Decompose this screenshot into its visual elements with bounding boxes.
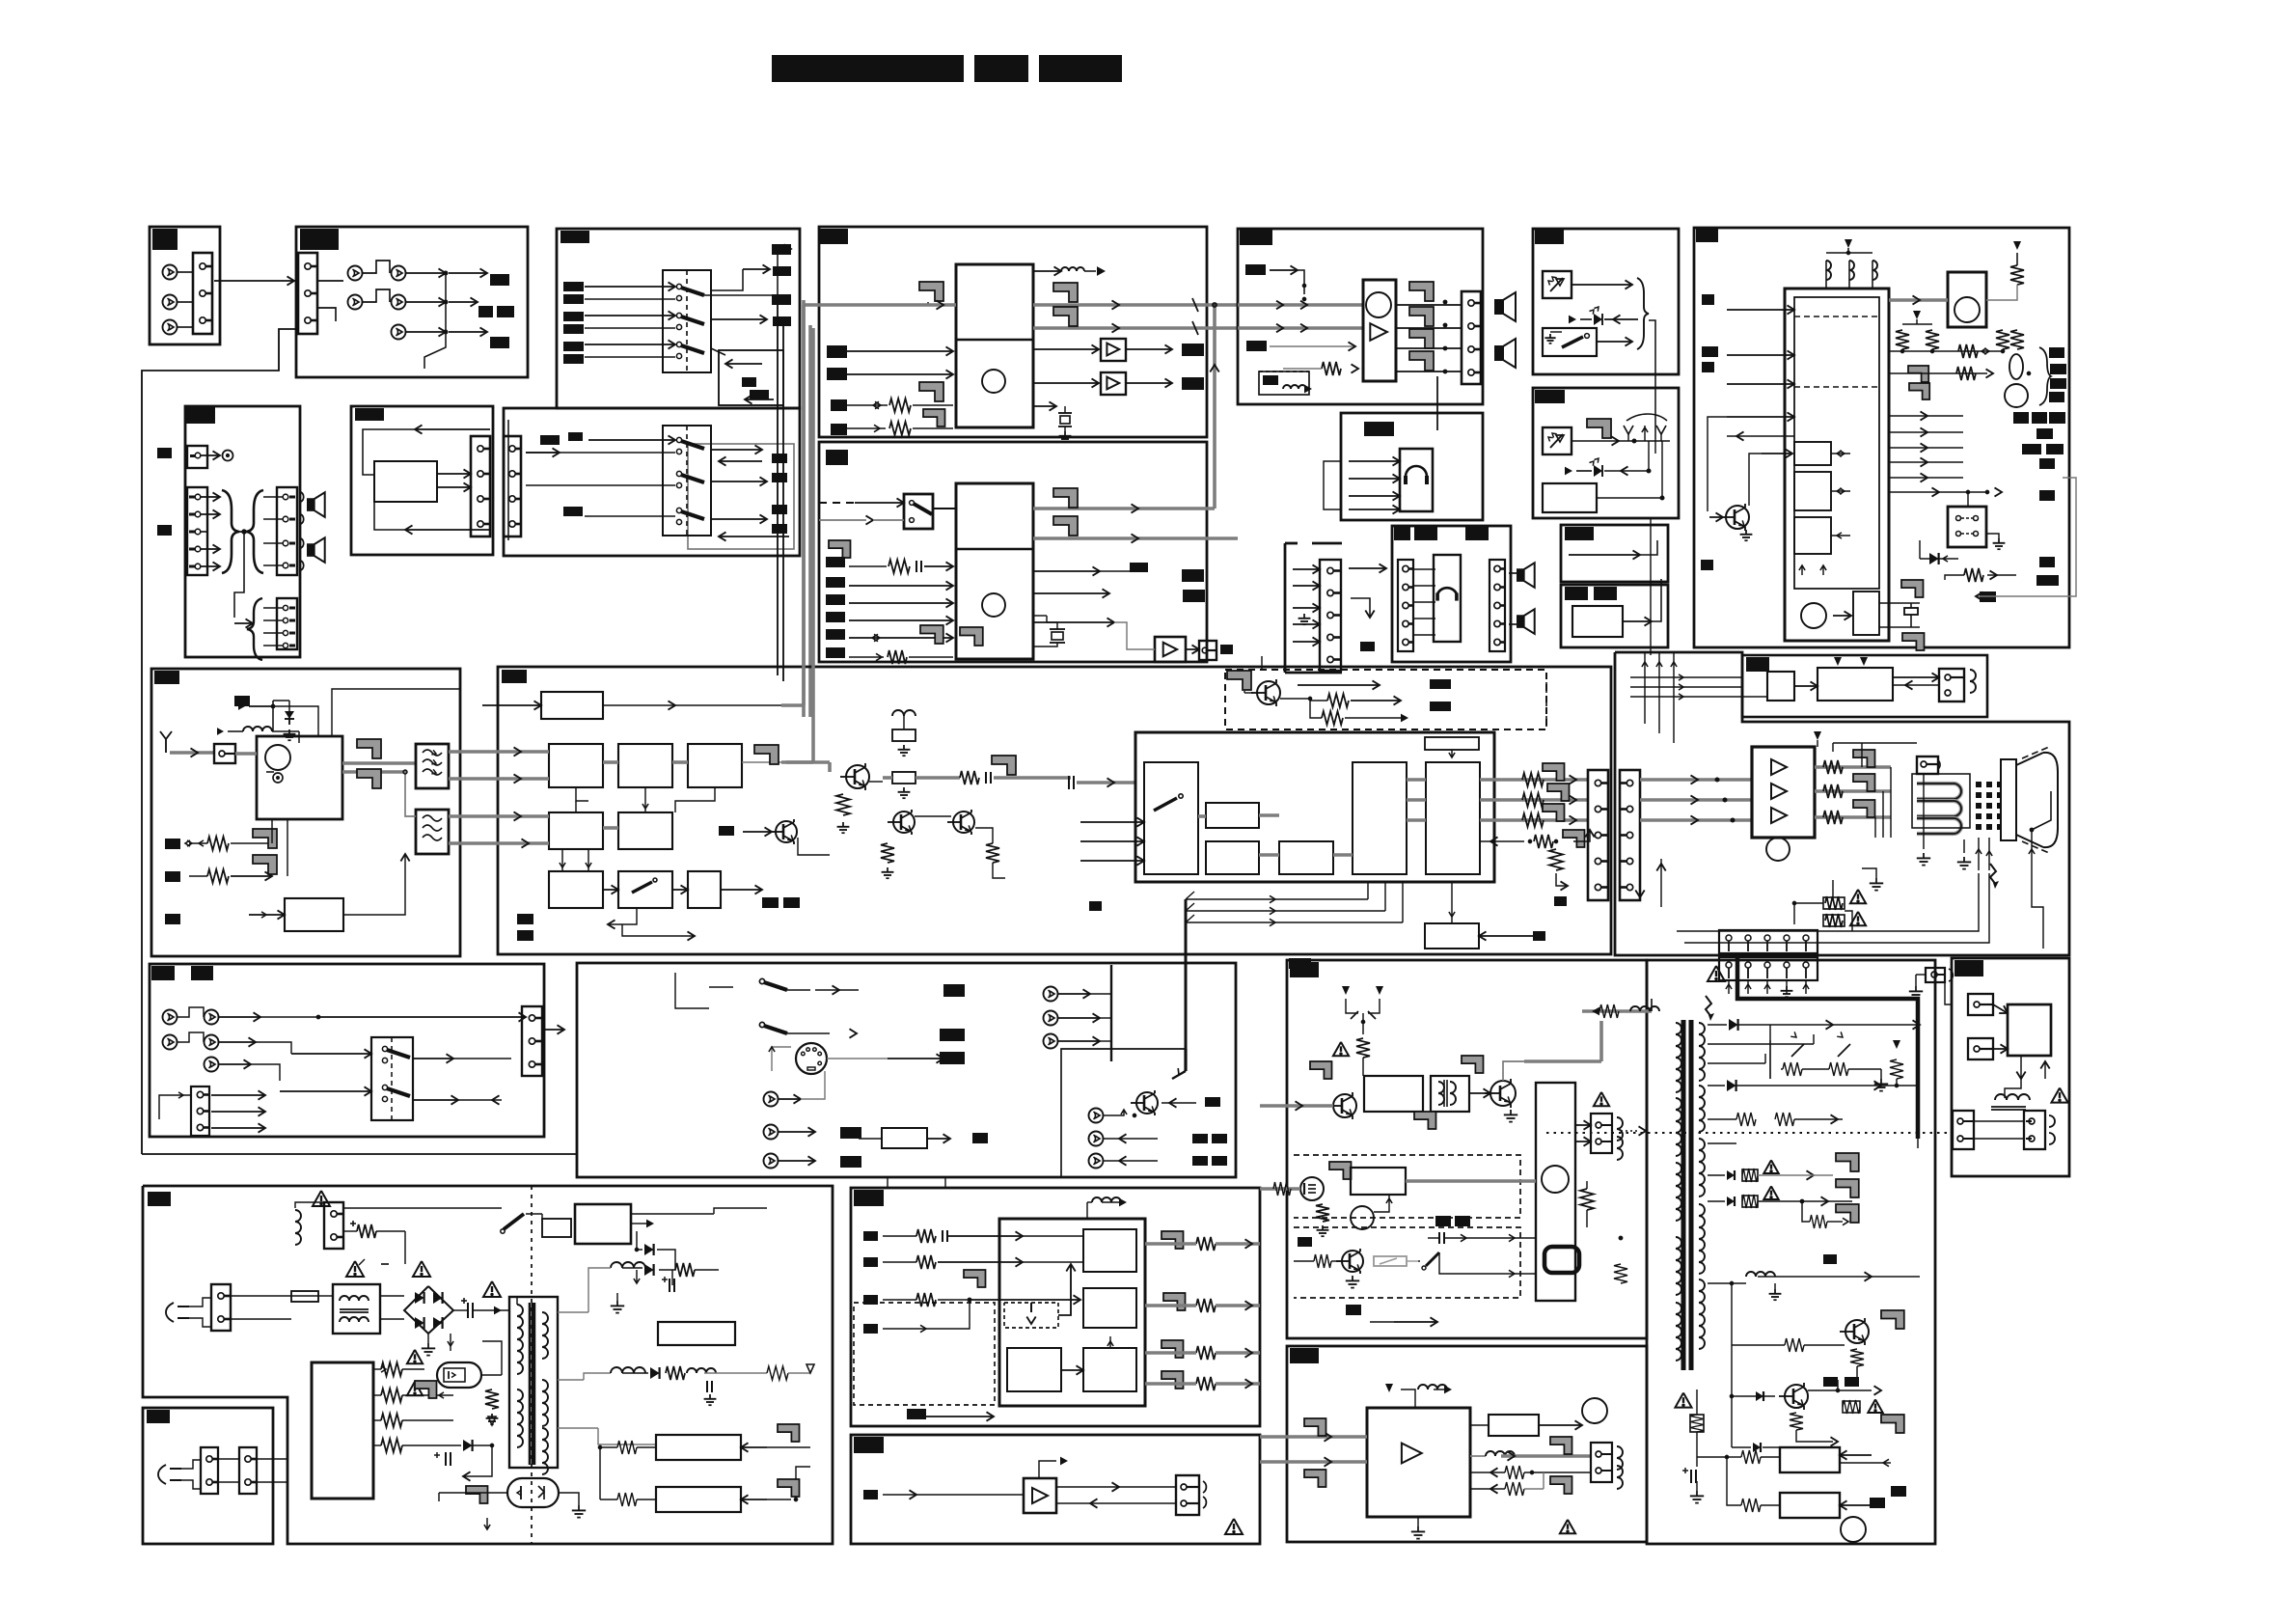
pin — [190, 454, 196, 457]
wire — [1270, 269, 1298, 271]
sec3 — [1708, 1142, 1736, 1144]
wire — [1407, 1260, 1418, 1262]
res v — [1850, 1349, 1864, 1366]
grid blocks row 2 — [549, 812, 603, 849]
res pair — [1736, 1113, 1756, 1126]
label chip — [1290, 1348, 1319, 1363]
label chip — [165, 871, 180, 882]
arrow dn — [486, 1518, 488, 1529]
cap+ — [467, 1303, 469, 1318]
label chip — [1130, 563, 1148, 572]
pin box2 — [1968, 1038, 1993, 1059]
gray flag — [1550, 1437, 1572, 1454]
wire — [374, 502, 405, 530]
switch — [676, 284, 681, 289]
conn L — [1953, 1111, 1974, 1149]
wire — [439, 1492, 507, 1494]
panel: function switch matrix B — [504, 408, 800, 556]
wire — [1396, 347, 1462, 349]
wire — [1889, 447, 1963, 449]
lightning — [1706, 996, 1711, 1017]
wire — [263, 619, 283, 621]
wire — [827, 1058, 888, 1059]
wire out 1 — [1145, 1242, 1196, 1246]
wire — [927, 1138, 950, 1140]
wire — [711, 449, 762, 451]
diode — [1920, 558, 1958, 560]
top entry — [1931, 972, 1937, 977]
switch — [759, 1022, 764, 1027]
connector strip 2 — [504, 436, 521, 536]
grid blocks row 1 — [549, 744, 603, 787]
brace — [1637, 278, 1649, 349]
degauss coil — [295, 1210, 301, 1245]
target circle — [223, 451, 233, 461]
title bar (redacted sheet id) — [1039, 55, 1122, 82]
wire down — [1649, 320, 1655, 439]
gray flag — [253, 829, 277, 848]
wire — [1033, 382, 1099, 384]
wire — [405, 529, 490, 531]
bus B2 — [1640, 818, 1753, 822]
circle — [1582, 1398, 1607, 1423]
opto1 — [437, 1362, 481, 1388]
wire — [1261, 656, 1263, 670]
supply mark — [1814, 731, 1821, 740]
panel: sync processing — [851, 1188, 1260, 1426]
label chip — [772, 524, 787, 534]
supply — [1039, 1461, 1056, 1478]
label chip — [1430, 679, 1451, 689]
wire — [263, 645, 283, 646]
wires up from jungle — [1644, 652, 1646, 724]
res v right — [1890, 1059, 1903, 1079]
spark gaps bottom — [1832, 880, 1834, 897]
abl res net — [1731, 1283, 1733, 1345]
wire — [711, 481, 767, 482]
arrow — [514, 747, 522, 756]
RCA jack — [163, 1010, 178, 1025]
warn — [1333, 1042, 1349, 1056]
bus out A — [1033, 507, 1215, 510]
bus saw->blocks — [449, 750, 549, 754]
wire — [798, 838, 830, 855]
pin — [283, 630, 287, 635]
res — [617, 1493, 637, 1506]
conn left — [1398, 560, 1413, 651]
chips — [1823, 1377, 1838, 1387]
label chip — [1183, 590, 1205, 602]
wire — [1058, 1264, 1071, 1315]
wire — [1808, 1389, 1838, 1391]
RCA jack — [348, 295, 363, 310]
label chip — [772, 505, 787, 514]
label chip — [826, 629, 845, 640]
gray flag — [919, 282, 943, 301]
wire — [1033, 348, 1099, 350]
in arrows left — [1080, 821, 1144, 823]
panel: AC outlet — [143, 1408, 273, 1544]
label chip — [826, 557, 845, 567]
wire — [719, 536, 789, 537]
brace right — [2039, 347, 2051, 405]
wire up — [1503, 1061, 1524, 1081]
label chip — [490, 274, 509, 286]
bus out R — [1480, 778, 1588, 782]
minus — [381, 1263, 389, 1265]
wire — [1889, 491, 1987, 493]
connector lower — [277, 598, 297, 649]
wire — [406, 272, 446, 274]
ret 2 — [1470, 1488, 1505, 1490]
wire vert long — [1650, 517, 1652, 655]
focus pots — [1769, 1040, 1771, 1079]
wire ret — [1056, 1502, 1148, 1504]
ant input box — [214, 744, 235, 763]
LED — [1565, 467, 1572, 476]
wire — [263, 542, 283, 544]
bus inside — [1198, 814, 1206, 818]
bus elbow — [781, 703, 804, 707]
inner core rect — [1794, 297, 1879, 589]
res — [1599, 1004, 1619, 1018]
wire to selector — [214, 280, 294, 282]
wire — [585, 327, 675, 329]
wire — [1413, 568, 1435, 570]
sub: input switch block — [1144, 762, 1198, 874]
wire — [178, 1032, 204, 1042]
res — [986, 843, 999, 863]
sub box 3 — [1007, 1348, 1061, 1391]
label chip — [1182, 377, 1204, 390]
bus — [603, 826, 618, 830]
pin — [283, 563, 288, 568]
connector strip — [193, 253, 212, 334]
gnd in box — [1549, 334, 1551, 338]
wire — [599, 1447, 601, 1499]
cap — [1068, 776, 1070, 789]
label chip — [820, 229, 848, 244]
label chip — [854, 1437, 884, 1453]
cap — [1438, 1232, 1440, 1244]
key circle — [1954, 297, 1980, 322]
speaker — [1517, 568, 1524, 582]
supply — [238, 702, 245, 710]
gnd — [1696, 1481, 1698, 1491]
arrow — [937, 300, 944, 309]
arrows — [1679, 674, 1683, 680]
wire — [542, 1029, 564, 1031]
process box — [882, 1128, 927, 1148]
wire — [883, 1494, 965, 1496]
wire — [796, 1467, 810, 1499]
gray inner panel — [688, 444, 794, 549]
label chip — [563, 354, 584, 364]
panel: tuning voltage — [1742, 655, 1987, 717]
wire — [343, 1230, 357, 1232]
switch matrix box — [663, 426, 711, 536]
bus in — [1260, 1435, 1367, 1439]
arc — [301, 538, 304, 548]
wire — [719, 460, 762, 462]
pot1 — [1791, 1044, 1804, 1057]
wire — [343, 854, 405, 915]
gray flag — [923, 409, 945, 426]
label chip — [1696, 229, 1718, 242]
panel: audio power amp — [1238, 229, 1483, 404]
wire — [1893, 676, 1939, 678]
wire — [218, 1458, 239, 1460]
wire — [631, 1213, 714, 1215]
sw contacts — [1956, 516, 1961, 521]
wire out — [711, 269, 743, 290]
gray flag inside IC — [960, 627, 983, 646]
osc oval — [2009, 354, 2023, 379]
down arrow — [1351, 598, 1370, 618]
res — [675, 1263, 695, 1277]
plus — [1682, 1470, 1688, 1472]
RGB amp box — [1752, 747, 1815, 838]
panel: horizontal deflection drive — [1287, 960, 1647, 1338]
wire top — [1825, 261, 1827, 289]
bus to jungle — [1077, 781, 1135, 784]
arrow down — [636, 1270, 638, 1283]
amp tri G — [1771, 784, 1787, 799]
label chip — [478, 306, 493, 317]
power switch — [1562, 337, 1583, 347]
wire — [271, 819, 273, 843]
arrow — [1132, 534, 1139, 542]
bus in2 — [1260, 1187, 1300, 1191]
label chip — [750, 390, 769, 399]
sec1b — [1708, 1043, 1814, 1045]
chips — [517, 914, 533, 924]
wire — [189, 875, 207, 877]
bus R2 — [1640, 778, 1753, 782]
warn — [2051, 1087, 2067, 1102]
line filter box — [333, 1284, 380, 1334]
title bar (redacted model name) — [772, 55, 964, 82]
wire — [1604, 318, 1638, 320]
IC circle — [1801, 603, 1826, 628]
wire — [1833, 615, 1851, 617]
crystal right — [1879, 602, 1902, 604]
wire — [779, 1131, 815, 1133]
wire — [458, 1099, 502, 1101]
speaker — [1517, 615, 1524, 628]
junction — [1632, 439, 1636, 443]
gray flag — [1836, 1179, 1859, 1197]
conn vert — [1591, 1443, 1612, 1482]
wire — [608, 908, 637, 924]
vert bus — [1110, 965, 1112, 1061]
title bar (redacted chassis) — [974, 55, 1028, 82]
wire — [413, 1058, 453, 1059]
dashed standby box — [1259, 371, 1309, 395]
conn right — [522, 1006, 542, 1076]
gray flag — [1053, 283, 1078, 302]
transistor Q-sw — [1136, 1092, 1158, 1114]
wire up arrows — [1298, 684, 1380, 686]
bottom bus — [142, 1153, 577, 1155]
bus vertical to IF — [821, 501, 825, 505]
gray flag — [1836, 1153, 1859, 1171]
label chip — [1565, 527, 1594, 540]
label chip — [563, 507, 583, 516]
label chip — [940, 1052, 965, 1064]
wire — [1293, 568, 1320, 570]
panel: headphone jack board — [1392, 526, 1511, 662]
label chip — [1430, 701, 1451, 711]
wire — [847, 404, 888, 406]
label chips below — [762, 897, 779, 908]
label chip — [772, 244, 791, 255]
gray flag — [1310, 1061, 1332, 1079]
plus — [662, 1279, 668, 1280]
flyback T2 core — [1681, 1020, 1686, 1370]
bus R — [1238, 326, 1363, 330]
CRT heater loops — [1917, 784, 1961, 799]
warn — [407, 1382, 423, 1395]
wire — [1696, 1389, 1698, 1415]
conn — [1939, 669, 1964, 701]
wire bot — [1394, 1321, 1437, 1323]
dashed isolation — [531, 1186, 533, 1544]
wire — [1974, 1120, 2024, 1122]
sub top small — [1425, 737, 1479, 750]
wire — [704, 1372, 767, 1374]
gray flag — [1587, 419, 1611, 438]
IF AGC box — [541, 692, 603, 719]
panel: audio line out — [851, 1435, 1260, 1544]
wire — [585, 356, 675, 358]
plus — [434, 1454, 440, 1456]
opto innards — [520, 1486, 522, 1499]
wide box — [1818, 668, 1893, 701]
wire — [1479, 935, 1544, 937]
gnd — [1774, 1283, 1776, 1289]
jungle IC U-jungle — [1135, 732, 1494, 882]
wire — [622, 924, 695, 936]
IC U-audio-B — [956, 483, 1033, 659]
RCA jack — [348, 266, 363, 281]
sub box 2 — [1083, 1288, 1136, 1328]
wire down — [234, 532, 244, 618]
gray flag — [920, 625, 943, 644]
geometry IC U-sync — [999, 1219, 1145, 1406]
gnd — [1986, 534, 1999, 538]
res pair — [1896, 330, 1909, 349]
wire r1 — [883, 1235, 916, 1237]
out wire 2 — [1033, 592, 1109, 594]
panel: tuner — [151, 669, 460, 956]
wire — [1967, 492, 1969, 507]
wire — [424, 273, 446, 369]
gnd — [616, 1293, 618, 1301]
cap+ — [1690, 1470, 1692, 1483]
sec diodes net — [622, 1267, 642, 1269]
pin — [283, 605, 287, 610]
label chip — [863, 1490, 878, 1499]
transistor Q-abl2 — [1785, 1385, 1808, 1408]
wire — [1270, 345, 1355, 347]
h wires to right — [1186, 898, 1368, 900]
wire — [170, 751, 214, 755]
gray flag — [1053, 488, 1078, 508]
wire — [1413, 585, 1435, 587]
resonator — [1033, 615, 1047, 617]
wire — [1802, 1068, 1829, 1070]
arrow down — [1639, 849, 1641, 897]
wires into panel — [1630, 676, 1742, 678]
RCA jack — [205, 1010, 219, 1025]
RCA jack — [764, 1092, 779, 1107]
dotted isolation line — [1546, 1132, 1951, 1134]
wire — [1293, 585, 1320, 587]
bus: IF vertical pair — [802, 305, 806, 705]
label chip — [831, 424, 847, 435]
sec out 2 — [558, 1379, 584, 1381]
tuner circle — [265, 745, 290, 770]
gray flag — [357, 739, 381, 758]
speaker LS-L — [1494, 299, 1503, 315]
supply — [1401, 1389, 1415, 1408]
panel: IF and chroma processing — [498, 667, 1611, 954]
label chip — [826, 577, 845, 588]
wire — [263, 564, 283, 566]
drive vert box — [1536, 1083, 1575, 1301]
conn — [201, 1447, 218, 1494]
label chip — [854, 1190, 884, 1206]
label chips left — [863, 1231, 878, 1241]
label chips — [1192, 1156, 1208, 1166]
wire — [219, 1041, 256, 1043]
res left of boxes — [617, 1441, 637, 1454]
coil — [1970, 670, 1976, 693]
label chip — [1346, 1305, 1361, 1315]
wire — [1470, 1424, 1489, 1426]
wire — [1708, 1062, 1765, 1064]
fuse — [291, 1291, 318, 1302]
vdr — [1690, 1415, 1704, 1432]
conn — [1176, 1475, 1199, 1515]
box — [1543, 483, 1597, 512]
gray flag — [754, 745, 779, 764]
jungle-to-P26 wires — [1061, 1049, 1186, 1177]
label chip — [563, 294, 584, 304]
label chip — [490, 337, 509, 348]
keyboard box — [1948, 272, 1986, 327]
conn strip CRT side — [1620, 770, 1640, 900]
wire — [1310, 700, 1327, 701]
RCA jack — [205, 1035, 219, 1050]
stub diagonals — [1186, 892, 1194, 899]
wire — [1148, 1486, 1176, 1488]
RCA jack J10 — [163, 265, 178, 280]
wire — [1889, 298, 1948, 302]
gnd — [1303, 614, 1305, 619]
wire — [1104, 1110, 1124, 1115]
wire — [1889, 431, 1963, 433]
wire — [178, 301, 193, 303]
IR sensor box — [1543, 427, 1572, 454]
wire — [1413, 601, 1435, 603]
wire — [847, 350, 953, 352]
wire — [280, 1090, 371, 1092]
panel: side AV input — [150, 964, 544, 1137]
switch box — [1543, 328, 1597, 356]
process box — [1572, 606, 1623, 637]
